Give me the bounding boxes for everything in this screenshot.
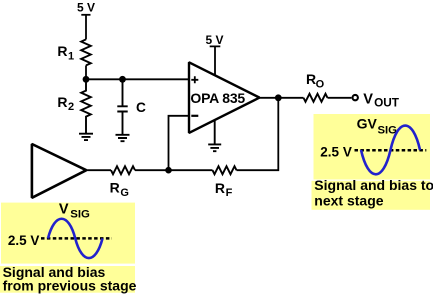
ground (C) <box>116 135 130 141</box>
svg-text:R: R <box>57 43 67 59</box>
svg-text:OUT: OUT <box>374 96 400 110</box>
resistor RG <box>110 166 135 199</box>
dashed bias line left <box>41 237 112 240</box>
callout: left text box <box>0 266 135 293</box>
wire <box>85 65 87 79</box>
dashed bias line right <box>355 149 427 152</box>
svg-text:5 V: 5 V <box>206 33 224 47</box>
callout: right text box <box>312 181 431 210</box>
wire <box>328 97 352 99</box>
wire <box>86 78 189 80</box>
caption left <box>3 264 137 294</box>
svg-text:1: 1 <box>68 51 74 63</box>
ground (R2) <box>79 134 93 140</box>
svg-text:V: V <box>363 91 373 107</box>
svg-text:next stage: next stage <box>314 192 383 208</box>
capacitor C <box>117 79 146 134</box>
resistor RO <box>304 71 328 102</box>
svg-text:R: R <box>57 94 67 110</box>
svg-text:O: O <box>316 78 325 90</box>
svg-text:V: V <box>59 201 69 217</box>
node A <box>83 76 90 83</box>
buffer amp (previous stage driver) <box>32 144 86 198</box>
svg-text:SIG: SIG <box>70 208 90 220</box>
wire <box>169 116 190 170</box>
svg-text:2.5 V: 2.5 V <box>8 233 40 248</box>
label VOUT <box>363 91 400 109</box>
callout: right sine box <box>314 114 431 180</box>
svg-text:from previous stage: from previous stage <box>3 277 137 293</box>
svg-text:Signal and bias to: Signal and bias to <box>314 177 433 193</box>
sine wave GVSIG <box>361 126 420 175</box>
wire <box>237 98 279 170</box>
sine wave VSIG <box>48 219 103 258</box>
resistor R2 <box>57 79 90 133</box>
svg-text:OPA 835: OPA 835 <box>190 90 245 106</box>
svg-text:R: R <box>215 180 225 196</box>
resistor RF <box>213 166 237 199</box>
ground (op-amp) <box>208 120 221 151</box>
label GVSIG <box>357 116 398 137</box>
svg-text:5 V: 5 V <box>77 1 95 15</box>
svg-text:G: G <box>120 187 129 199</box>
svg-text:F: F <box>226 187 233 199</box>
caption right <box>314 177 433 208</box>
wire <box>86 169 111 171</box>
resistor R1 <box>57 39 90 65</box>
callout: left sine box <box>1 203 135 264</box>
node C (output) <box>275 94 282 101</box>
wire <box>135 169 213 171</box>
svg-text:2.5 V: 2.5 V <box>320 144 352 159</box>
label VSIG <box>59 201 90 220</box>
op-amp U1 OPA835 <box>189 62 260 133</box>
svg-text:R: R <box>110 180 120 196</box>
svg-text:R: R <box>306 71 316 87</box>
node D (feedback junction) <box>165 167 172 174</box>
wire <box>85 15 87 40</box>
svg-text:C: C <box>136 100 146 115</box>
supply +5V left <box>77 1 95 15</box>
terminal VOUT <box>353 95 358 100</box>
svg-text:2: 2 <box>68 101 74 113</box>
svg-text:GV: GV <box>357 116 378 132</box>
supply +5V op-amp <box>206 33 224 75</box>
wire <box>260 97 304 99</box>
node B <box>119 76 126 83</box>
